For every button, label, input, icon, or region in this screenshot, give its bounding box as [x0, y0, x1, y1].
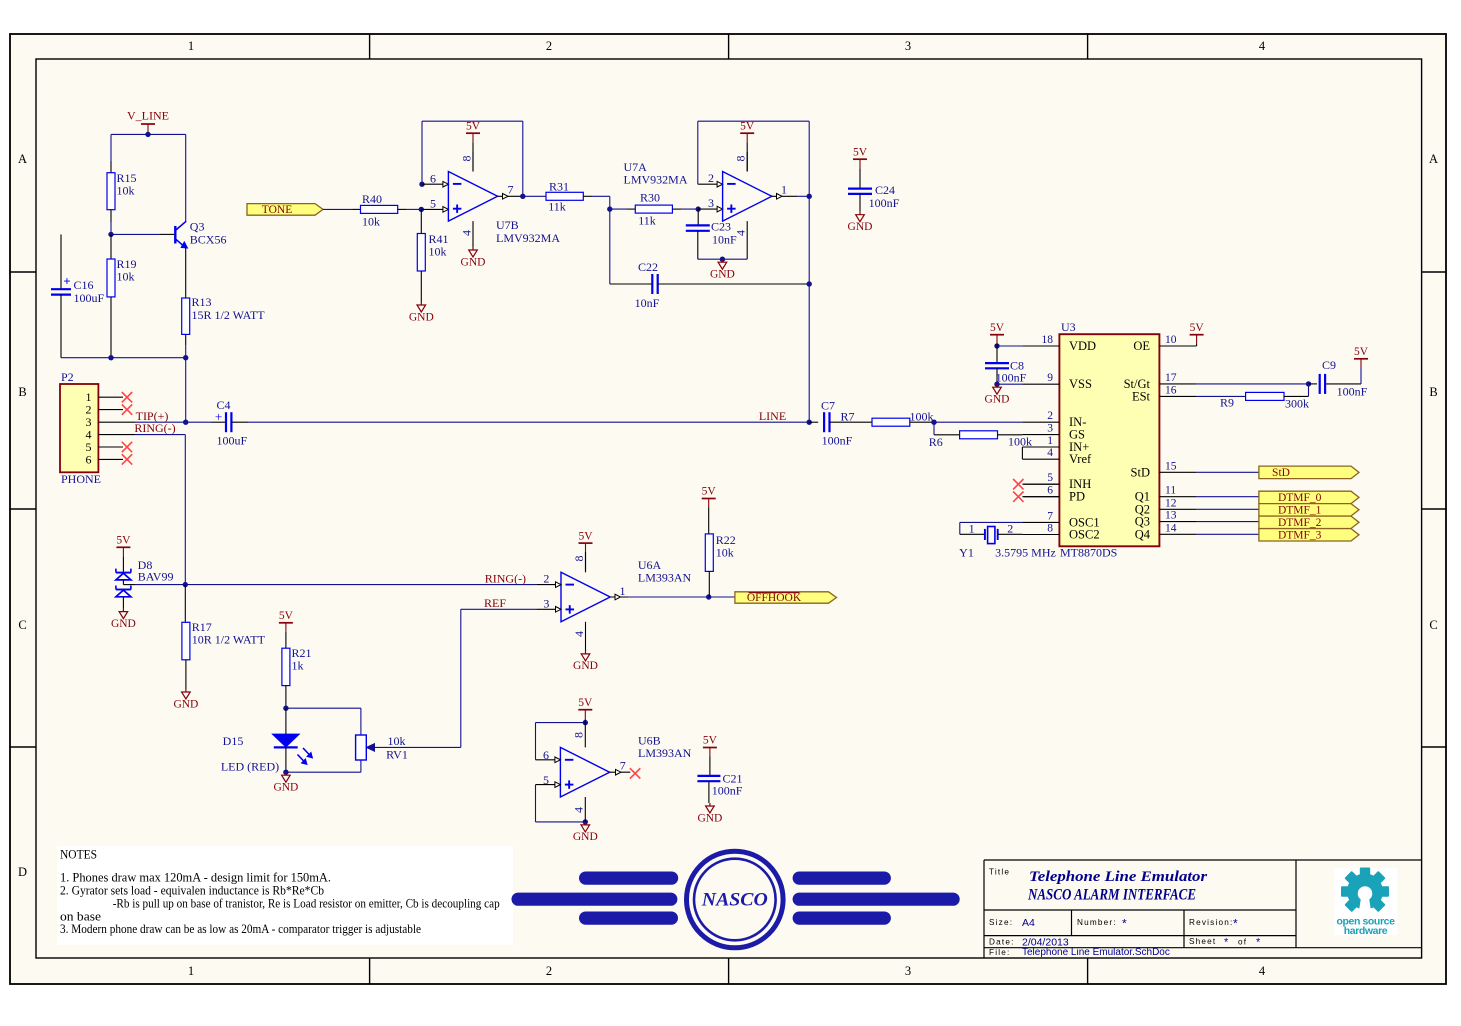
svg-text:5V: 5V: [578, 697, 593, 709]
svg-text:A4: A4: [1022, 917, 1035, 929]
svg-text:5V: 5V: [740, 120, 755, 132]
svg-text:R7: R7: [840, 409, 854, 423]
svg-text:RING(-): RING(-): [134, 421, 175, 435]
svg-text:-Rb is pull up on base of tran: -Rb is pull up on base of tranistor, Re …: [113, 896, 500, 910]
svg-text:10k: 10k: [429, 244, 447, 258]
svg-text:StD: StD: [1131, 465, 1150, 479]
svg-text:NASCO: NASCO: [701, 890, 768, 911]
svg-text:Size:: Size:: [989, 918, 1013, 927]
svg-text:NOTES: NOTES: [60, 848, 97, 862]
svg-text:5V: 5V: [1190, 322, 1205, 334]
svg-text:2: 2: [546, 964, 552, 978]
svg-text:1: 1: [620, 584, 626, 598]
svg-text:10nF: 10nF: [712, 232, 737, 246]
svg-text:Number:: Number:: [1077, 918, 1117, 927]
svg-text:C24: C24: [875, 183, 895, 197]
svg-text:C7: C7: [821, 398, 835, 412]
svg-text:15R 1/2 WATT: 15R 1/2 WATT: [192, 308, 266, 322]
svg-text:C4: C4: [216, 398, 230, 412]
svg-text:U3: U3: [1061, 320, 1076, 334]
svg-text:OSC2: OSC2: [1069, 528, 1100, 542]
svg-text:P2: P2: [61, 370, 74, 384]
svg-text:C: C: [18, 618, 26, 632]
svg-text:GND: GND: [573, 831, 598, 843]
svg-text:of: of: [1238, 938, 1247, 947]
svg-text:*: *: [1233, 917, 1238, 931]
svg-text:100nF: 100nF: [712, 784, 743, 798]
svg-text:A: A: [18, 152, 27, 166]
svg-text:11: 11: [1165, 485, 1176, 497]
svg-text:4: 4: [1047, 447, 1053, 459]
svg-text:8: 8: [460, 156, 474, 162]
svg-text:*: *: [1256, 937, 1261, 949]
svg-text:10k: 10k: [388, 734, 406, 748]
svg-text:10k: 10k: [716, 546, 734, 560]
svg-text:4: 4: [1259, 39, 1266, 53]
svg-text:RV1: RV1: [386, 747, 408, 761]
svg-text:10: 10: [1165, 334, 1177, 346]
svg-text:GND: GND: [985, 394, 1010, 406]
svg-text:8: 8: [1047, 523, 1053, 535]
svg-text:GND: GND: [111, 618, 136, 630]
svg-text:7: 7: [1047, 510, 1053, 522]
svg-text:C22: C22: [638, 260, 658, 274]
svg-text:DTMF_0: DTMF_0: [1278, 492, 1322, 504]
svg-text:2: 2: [1007, 521, 1013, 535]
svg-text:A: A: [1429, 152, 1438, 166]
svg-text:MT8870DS: MT8870DS: [1060, 546, 1117, 560]
svg-text:Title: Title: [989, 868, 1010, 877]
svg-text:8: 8: [734, 156, 748, 162]
svg-text:1: 1: [188, 39, 194, 53]
svg-text:GND: GND: [409, 311, 434, 323]
svg-text:3: 3: [905, 39, 911, 53]
svg-text:10nF: 10nF: [635, 296, 660, 310]
svg-text:D: D: [18, 865, 27, 879]
svg-text:7: 7: [620, 758, 626, 772]
svg-text:16: 16: [1165, 384, 1177, 396]
svg-text:GND: GND: [273, 782, 298, 794]
svg-text:10R 1/2 WATT: 10R 1/2 WATT: [192, 632, 266, 646]
svg-text:LMV932MA: LMV932MA: [624, 173, 688, 187]
svg-text:5: 5: [1047, 472, 1053, 484]
svg-text:B: B: [1429, 385, 1437, 399]
svg-text:NASCO ALARM INTERFACE: NASCO ALARM INTERFACE: [1027, 887, 1196, 904]
svg-text:5V: 5V: [703, 735, 718, 747]
svg-text:4: 4: [572, 807, 586, 813]
svg-text:2: 2: [543, 572, 549, 586]
svg-text:File:: File:: [989, 948, 1010, 957]
svg-text:LM393AN: LM393AN: [638, 570, 692, 584]
svg-text:1: 1: [781, 182, 787, 196]
svg-text:10k: 10k: [117, 184, 135, 198]
svg-text:B: B: [18, 385, 26, 399]
svg-text:18: 18: [1042, 334, 1054, 346]
svg-text:5V: 5V: [853, 146, 868, 158]
svg-text:6: 6: [1047, 485, 1053, 497]
svg-text:9: 9: [1047, 372, 1053, 384]
svg-text:5V: 5V: [466, 120, 481, 132]
svg-text:hardware: hardware: [1344, 925, 1388, 937]
svg-text:2: 2: [708, 171, 714, 185]
svg-text:4: 4: [572, 631, 586, 637]
svg-text:DTMF_3: DTMF_3: [1278, 529, 1322, 541]
svg-text:Y1: Y1: [959, 546, 974, 560]
svg-text:*: *: [1122, 917, 1127, 931]
svg-text:VDD: VDD: [1069, 339, 1096, 353]
svg-text:15: 15: [1165, 460, 1177, 472]
svg-text:DTMF_1: DTMF_1: [1278, 504, 1322, 516]
svg-text:R31: R31: [549, 179, 569, 193]
svg-text:*: *: [1224, 937, 1229, 949]
svg-text:100nF: 100nF: [1337, 385, 1368, 399]
svg-text:OE: OE: [1133, 339, 1150, 353]
svg-text:GND: GND: [697, 812, 722, 824]
svg-text:StD: StD: [1272, 467, 1290, 479]
svg-text:GND: GND: [848, 221, 873, 233]
svg-text:3: 3: [543, 596, 549, 610]
svg-text:RING(-): RING(-): [485, 571, 526, 585]
svg-text:100k: 100k: [910, 409, 934, 423]
svg-text:OFFHOOK: OFFHOOK: [747, 592, 802, 604]
svg-text:100nF: 100nF: [996, 370, 1027, 384]
svg-text:8: 8: [572, 556, 586, 562]
svg-text:2: 2: [546, 39, 552, 53]
svg-text:4: 4: [1259, 964, 1266, 978]
svg-text:10k: 10k: [117, 270, 135, 284]
svg-text:Q4: Q4: [1135, 527, 1151, 541]
svg-text:PHONE: PHONE: [61, 472, 101, 486]
svg-text:13: 13: [1165, 510, 1177, 522]
svg-text:Revision:: Revision:: [1189, 918, 1233, 927]
svg-text:1: 1: [969, 521, 975, 535]
svg-text:Vref: Vref: [1069, 452, 1092, 466]
svg-text:2. Gyrator sets load - equival: 2. Gyrator sets load - equivalen inducta…: [60, 883, 324, 897]
svg-text:D15: D15: [223, 734, 244, 748]
svg-text:1: 1: [188, 964, 194, 978]
svg-text:PD: PD: [1069, 490, 1085, 504]
svg-text:1k: 1k: [292, 659, 304, 673]
svg-text:V_LINE: V_LINE: [127, 108, 169, 122]
svg-text:1: 1: [1047, 435, 1053, 447]
svg-text:14: 14: [1165, 522, 1177, 534]
svg-text:TONE: TONE: [262, 204, 292, 216]
svg-text:ESt: ESt: [1132, 389, 1151, 403]
svg-text:C: C: [1429, 618, 1437, 632]
svg-text:12: 12: [1165, 497, 1177, 509]
svg-text:5: 5: [430, 197, 436, 211]
svg-text:R9: R9: [1220, 396, 1234, 410]
svg-text:GND: GND: [710, 269, 735, 281]
svg-text:11k: 11k: [548, 200, 566, 214]
svg-text:17: 17: [1165, 372, 1177, 384]
svg-text:3. Modern phone draw can be as: 3. Modern phone draw can be as low as 20…: [60, 922, 421, 936]
svg-text:LED (RED): LED (RED): [221, 760, 279, 774]
svg-text:Sheet: Sheet: [1189, 937, 1216, 946]
svg-text:100nF: 100nF: [869, 196, 900, 210]
svg-text:Date:: Date:: [989, 938, 1015, 947]
svg-text:6: 6: [86, 452, 92, 466]
svg-text:GND: GND: [573, 660, 598, 672]
svg-text:3: 3: [905, 964, 911, 978]
svg-text:R6: R6: [929, 435, 943, 449]
svg-text:GND: GND: [173, 698, 198, 710]
svg-text:3: 3: [1047, 423, 1053, 435]
svg-text:8: 8: [572, 732, 586, 738]
svg-text:100k: 100k: [1008, 434, 1032, 448]
svg-text:R30: R30: [640, 191, 660, 205]
svg-text:Telephone Line Emulator: Telephone Line Emulator: [1029, 869, 1207, 885]
svg-text:DTMF_2: DTMF_2: [1278, 517, 1322, 529]
svg-text:GND: GND: [461, 256, 486, 268]
svg-text:5V: 5V: [578, 530, 593, 542]
svg-text:3.5795 MHz: 3.5795 MHz: [995, 546, 1056, 560]
svg-text:5V: 5V: [702, 486, 717, 498]
svg-text:5V: 5V: [279, 610, 294, 622]
svg-text:10k: 10k: [362, 215, 380, 229]
svg-text:R40: R40: [362, 192, 382, 206]
svg-text:LMV932MA: LMV932MA: [496, 231, 560, 245]
svg-text:4: 4: [460, 230, 474, 236]
svg-text:VSS: VSS: [1069, 377, 1092, 391]
svg-text:100uF: 100uF: [74, 291, 105, 305]
svg-text:C9: C9: [1322, 358, 1336, 372]
svg-text:+: +: [63, 274, 70, 289]
svg-text:BCX56: BCX56: [190, 232, 227, 246]
svg-text:2: 2: [1047, 410, 1053, 422]
svg-text:Telephone Line Emulator.SchDoc: Telephone Line Emulator.SchDoc: [1022, 947, 1170, 958]
svg-text:LINE: LINE: [759, 409, 786, 423]
svg-text:C23: C23: [711, 220, 731, 234]
svg-text:11k: 11k: [638, 214, 656, 228]
svg-text:BAV99: BAV99: [138, 570, 174, 584]
svg-text:REF: REF: [484, 596, 506, 610]
svg-text:5V: 5V: [990, 322, 1005, 334]
svg-text:LM393AN: LM393AN: [638, 746, 692, 760]
svg-text:5V: 5V: [1354, 346, 1369, 358]
svg-text:3: 3: [708, 196, 714, 210]
svg-text:7: 7: [508, 182, 514, 196]
svg-text:100nF: 100nF: [822, 433, 853, 447]
svg-text:6: 6: [430, 171, 436, 185]
svg-text:300k: 300k: [1285, 396, 1309, 410]
svg-text:5V: 5V: [116, 535, 131, 547]
svg-text:100uF: 100uF: [217, 433, 248, 447]
